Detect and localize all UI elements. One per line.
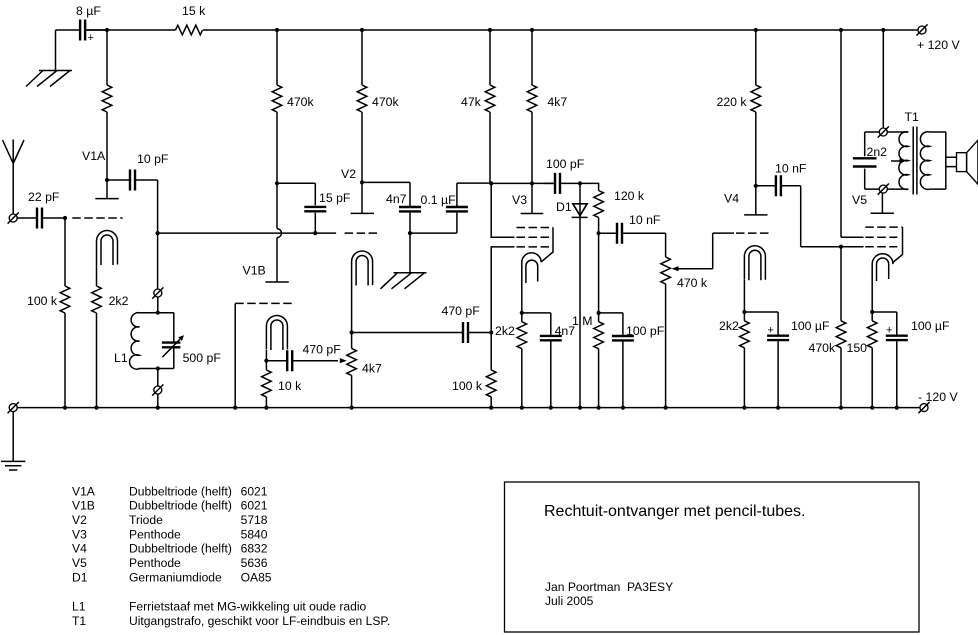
resistor R 150 V5 cathode bbox=[847, 312, 878, 408]
wire bypass row bbox=[410, 232, 457, 234]
wire plate row V3 bbox=[491, 182, 553, 184]
wire down to L1 bbox=[157, 233, 159, 289]
node V1B plate bbox=[275, 181, 279, 185]
title box bbox=[505, 482, 920, 632]
wire wiper to V4 grid bbox=[713, 232, 734, 234]
node V2 cathode 4k7 bbox=[350, 330, 354, 334]
inductor L1 bbox=[114, 313, 174, 370]
node supply V5 screen bbox=[839, 28, 843, 32]
wire T1 primary top bbox=[865, 131, 909, 133]
svg-text:470k: 470k bbox=[372, 95, 400, 109]
svg-text:10 pF: 10 pF bbox=[137, 152, 169, 166]
terminal L1 bottom bbox=[157, 369, 159, 387]
svg-text:100 k: 100 k bbox=[27, 294, 58, 308]
svg-text:6832: 6832 bbox=[241, 542, 268, 556]
terminal L1 top bbox=[152, 287, 163, 298]
node detector bbox=[578, 181, 582, 185]
node supply 220k bbox=[754, 28, 758, 32]
resistor R 470k V2 plate bbox=[357, 30, 399, 182]
svg-text:Rechtuit-ontvanger met pencil-: Rechtuit-ontvanger met pencil-tubes. bbox=[544, 503, 805, 520]
svg-text:100 pF: 100 pF bbox=[626, 324, 665, 338]
resistor R 1M bbox=[572, 233, 603, 407]
node 1M top bbox=[597, 311, 601, 315]
svg-text:470 pF: 470 pF bbox=[442, 304, 481, 318]
svg-text:10 nF: 10 nF bbox=[629, 213, 661, 227]
terminal T1 top bbox=[878, 126, 889, 137]
terminal +120V bbox=[916, 24, 927, 35]
resistor R 100k grid leak bbox=[27, 218, 70, 408]
triode V2 bbox=[341, 167, 377, 333]
svg-text:15 pF: 15 pF bbox=[319, 191, 351, 205]
wire V1B grid to ground rail bbox=[234, 303, 236, 407]
node V1B cathode bbox=[264, 359, 268, 363]
ground chassis V2 bbox=[381, 273, 427, 289]
svg-text:+: + bbox=[768, 325, 774, 337]
wire grid row to V2 bbox=[158, 232, 337, 234]
capacitor C 500pF variable bbox=[162, 313, 221, 369]
svg-text:2k2: 2k2 bbox=[109, 294, 129, 308]
svg-text:120 k: 120 k bbox=[614, 189, 645, 203]
svg-text:V1B: V1B bbox=[72, 499, 95, 513]
resistor R 120k bbox=[580, 183, 645, 233]
svg-text:8 µF: 8 µF bbox=[76, 4, 101, 18]
svg-text:6021: 6021 bbox=[241, 484, 268, 498]
node supply 470k V1B bbox=[275, 28, 279, 32]
capacitor C 4n7 cathode bypass bbox=[522, 313, 575, 408]
wire 8uF to chassis ground bbox=[55, 30, 57, 71]
wire top supply rail bbox=[85, 29, 918, 31]
wire 10pF down to detector row bbox=[157, 180, 159, 233]
resistor R 470k V1B plate bbox=[272, 30, 314, 183]
resistor R 2k2 V1A cathode bbox=[92, 286, 129, 408]
node V1A grid bbox=[63, 216, 67, 220]
capacitor C 8uF bbox=[56, 4, 108, 44]
svg-text:100 µF: 100 µF bbox=[791, 319, 830, 333]
svg-text:470k: 470k bbox=[809, 341, 837, 355]
diode D1 OA85 bbox=[556, 183, 588, 407]
node V5 grid bbox=[839, 245, 843, 249]
capacitor C 2n2 bbox=[853, 132, 887, 189]
triode V4 bbox=[724, 186, 771, 312]
speaker LSP bbox=[957, 140, 978, 184]
svg-text:Ferrietstaaf met MG-wikkeling: Ferrietstaaf met MG-wikkeling uit oude r… bbox=[129, 600, 367, 614]
svg-text:6021: 6021 bbox=[241, 499, 268, 513]
triode V1A bbox=[72, 149, 122, 286]
svg-text:L1: L1 bbox=[114, 351, 128, 365]
wire T1 primary bottom bbox=[865, 188, 909, 190]
node V3 screen feed bbox=[489, 181, 493, 185]
svg-text:470 k: 470 k bbox=[677, 276, 708, 290]
svg-text:V3: V3 bbox=[72, 527, 87, 541]
resistor R 47k screen V3 bbox=[461, 30, 495, 183]
svg-text:2k2: 2k2 bbox=[719, 319, 739, 333]
svg-text:10 nF: 10 nF bbox=[775, 162, 807, 176]
antenna bbox=[3, 140, 25, 215]
ground earth bottom-left bbox=[1, 461, 25, 470]
svg-text:V3: V3 bbox=[512, 193, 527, 207]
capacitor C 100uF V5 cathode bbox=[872, 312, 950, 408]
terminal -120V bbox=[918, 402, 929, 413]
wire 10nF to V5 grid bbox=[801, 186, 841, 247]
svg-text:0.1 µF: 0.1 µF bbox=[421, 193, 457, 207]
node grid bypass bbox=[408, 231, 412, 235]
svg-text:2n2: 2n2 bbox=[867, 145, 888, 159]
wire secondary to speaker bbox=[930, 132, 957, 189]
capacitor C 10nF coupling V5 bbox=[756, 162, 807, 197]
svg-text:V4: V4 bbox=[72, 542, 87, 556]
resistor R 2k2 V3 cathode bbox=[495, 313, 527, 408]
wire screen elbow V3 bbox=[491, 183, 514, 237]
node supply V1A bbox=[105, 28, 109, 32]
svg-text:1 M: 1 M bbox=[572, 314, 593, 328]
resistor R 10k bbox=[262, 361, 302, 408]
svg-text:L1: L1 bbox=[72, 600, 86, 614]
svg-text:220 k: 220 k bbox=[717, 95, 748, 109]
node V3 cathode bbox=[520, 311, 524, 315]
node V4 cathode bbox=[742, 310, 746, 314]
svg-text:500 pF: 500 pF bbox=[183, 351, 222, 365]
terminal antenna bbox=[8, 212, 19, 223]
capacitor C 470pF coupling V3 bbox=[352, 304, 492, 343]
parts list table bbox=[72, 484, 390, 628]
svg-text:T1: T1 bbox=[905, 110, 920, 124]
svg-text:Uitgangstrafo, geschikt voor L: Uitgangstrafo, geschikt voor LF-eindbuis… bbox=[129, 614, 390, 628]
svg-text:+: + bbox=[88, 32, 94, 44]
svg-text:Dubbeltriode (helft): Dubbeltriode (helft) bbox=[129, 542, 232, 556]
node supply 47k bbox=[488, 28, 492, 32]
capacitor C 4n7 grid bbox=[362, 182, 421, 233]
svg-text:4k7: 4k7 bbox=[547, 95, 567, 109]
wire to RF ground bbox=[409, 233, 411, 273]
svg-text:Jan Poortman PA3ESY: Jan Poortman PA3ESY bbox=[545, 580, 673, 594]
svg-text:V1A: V1A bbox=[82, 149, 106, 163]
wire V5 screen feed bbox=[841, 30, 864, 237]
svg-text:V1B: V1B bbox=[243, 264, 266, 278]
ground chassis top-left bbox=[26, 71, 72, 87]
node V3 plate bbox=[530, 181, 534, 185]
transformer T1 bbox=[891, 110, 930, 195]
node supply T1 bbox=[881, 28, 885, 32]
svg-text:10 k: 10 k bbox=[278, 379, 302, 393]
resistor R 4k7 V3 plate bbox=[527, 30, 567, 183]
svg-text:100 µF: 100 µF bbox=[911, 319, 950, 333]
svg-text:5636: 5636 bbox=[241, 556, 268, 570]
capacitor C 22pF bbox=[17, 190, 65, 229]
svg-text:100 k: 100 k bbox=[452, 379, 483, 393]
wire to earth bbox=[12, 412, 14, 462]
svg-text:- 120 V: - 120 V bbox=[918, 390, 958, 404]
capacitor C 10pF bbox=[107, 152, 169, 191]
svg-text:5840: 5840 bbox=[241, 527, 268, 541]
svg-text:4n7: 4n7 bbox=[386, 192, 407, 206]
svg-text:V5: V5 bbox=[852, 193, 867, 207]
terminal chassis bottom-left bbox=[8, 402, 19, 413]
resistor R 470k V5 grid bbox=[809, 247, 846, 408]
svg-text:15 k: 15 k bbox=[182, 4, 206, 18]
svg-text:4k7: 4k7 bbox=[362, 362, 382, 376]
node V2 plate bbox=[360, 180, 364, 184]
resistor R 15k bbox=[176, 4, 207, 35]
resistor R 2k2 V4 cathode bbox=[719, 312, 749, 408]
svg-text:Germaniumdiode: Germaniumdiode bbox=[129, 570, 222, 584]
svg-text:Dubbeltriode (helft): Dubbeltriode (helft) bbox=[129, 484, 232, 498]
resistor R 100k V3 grid bbox=[452, 333, 496, 408]
resistor R plate V1A bbox=[102, 30, 112, 180]
node V5 cathode bbox=[870, 310, 874, 314]
capacitor C 0.1uF bbox=[421, 183, 492, 233]
capacitor C 100uF V4 cathode bbox=[744, 312, 830, 408]
svg-text:V4: V4 bbox=[724, 192, 739, 206]
wire control grid elbow V3 bbox=[491, 247, 514, 333]
svg-text:22 pF: 22 pF bbox=[28, 190, 60, 204]
svg-text:Penthode: Penthode bbox=[129, 527, 181, 541]
svg-text:OA85: OA85 bbox=[241, 570, 272, 584]
node V3 grid leak bbox=[489, 330, 493, 334]
node V1A plate bbox=[105, 178, 109, 182]
triode V1B bbox=[235, 183, 292, 360]
svg-text:T1: T1 bbox=[72, 614, 86, 628]
node AF takeoff bbox=[597, 231, 601, 235]
wire supply to T1 terminal bbox=[882, 30, 884, 128]
svg-text:Dubbeltriode (helft): Dubbeltriode (helft) bbox=[129, 499, 232, 513]
svg-text:2k2: 2k2 bbox=[495, 324, 515, 338]
wire 470k wiper bbox=[672, 233, 713, 271]
svg-text:Penthode: Penthode bbox=[129, 556, 181, 570]
svg-text:V1A: V1A bbox=[72, 484, 96, 498]
svg-text:+: + bbox=[886, 325, 892, 337]
capacitor C 470pF feedback bbox=[266, 343, 346, 372]
svg-text:5718: 5718 bbox=[241, 513, 268, 527]
wire bottom supply rail bbox=[17, 407, 920, 409]
svg-text:D1: D1 bbox=[556, 200, 572, 214]
potentiometer R 470k volume bbox=[661, 233, 708, 407]
svg-text:47k: 47k bbox=[461, 95, 482, 109]
svg-text:V5: V5 bbox=[72, 556, 87, 570]
svg-text:470k: 470k bbox=[287, 95, 315, 109]
node supply 4k7 bbox=[530, 28, 534, 32]
svg-text:+ 120 V: + 120 V bbox=[917, 38, 961, 52]
svg-text:Juli 2005: Juli 2005 bbox=[545, 594, 594, 608]
svg-text:100 pF: 100 pF bbox=[546, 157, 585, 171]
svg-text:Triode: Triode bbox=[129, 513, 163, 527]
capacitor C 100pF detector coupling bbox=[545, 157, 585, 194]
capacitor C 10nF AF coupling bbox=[599, 213, 666, 244]
svg-text:V2: V2 bbox=[341, 167, 356, 181]
svg-text:D1: D1 bbox=[72, 570, 88, 584]
svg-text:470 pF: 470 pF bbox=[303, 343, 342, 357]
resistor R 220k V4 plate bbox=[717, 30, 761, 186]
pentode V5 bbox=[852, 193, 903, 312]
terminal T1 bottom / V5 plate bbox=[878, 184, 889, 195]
node supply 470k V2 bbox=[360, 28, 364, 32]
pentode V3 bbox=[512, 183, 553, 313]
node V4 plate bbox=[754, 184, 758, 188]
wire V5 control grid bbox=[841, 246, 864, 248]
svg-text:150: 150 bbox=[847, 341, 868, 355]
svg-text:V2: V2 bbox=[72, 513, 87, 527]
capacitor C 15pF bbox=[277, 183, 351, 233]
capacitor C 100pF AF filter bbox=[599, 313, 665, 408]
potentiometer R 4k7 regeneration bbox=[347, 333, 382, 408]
